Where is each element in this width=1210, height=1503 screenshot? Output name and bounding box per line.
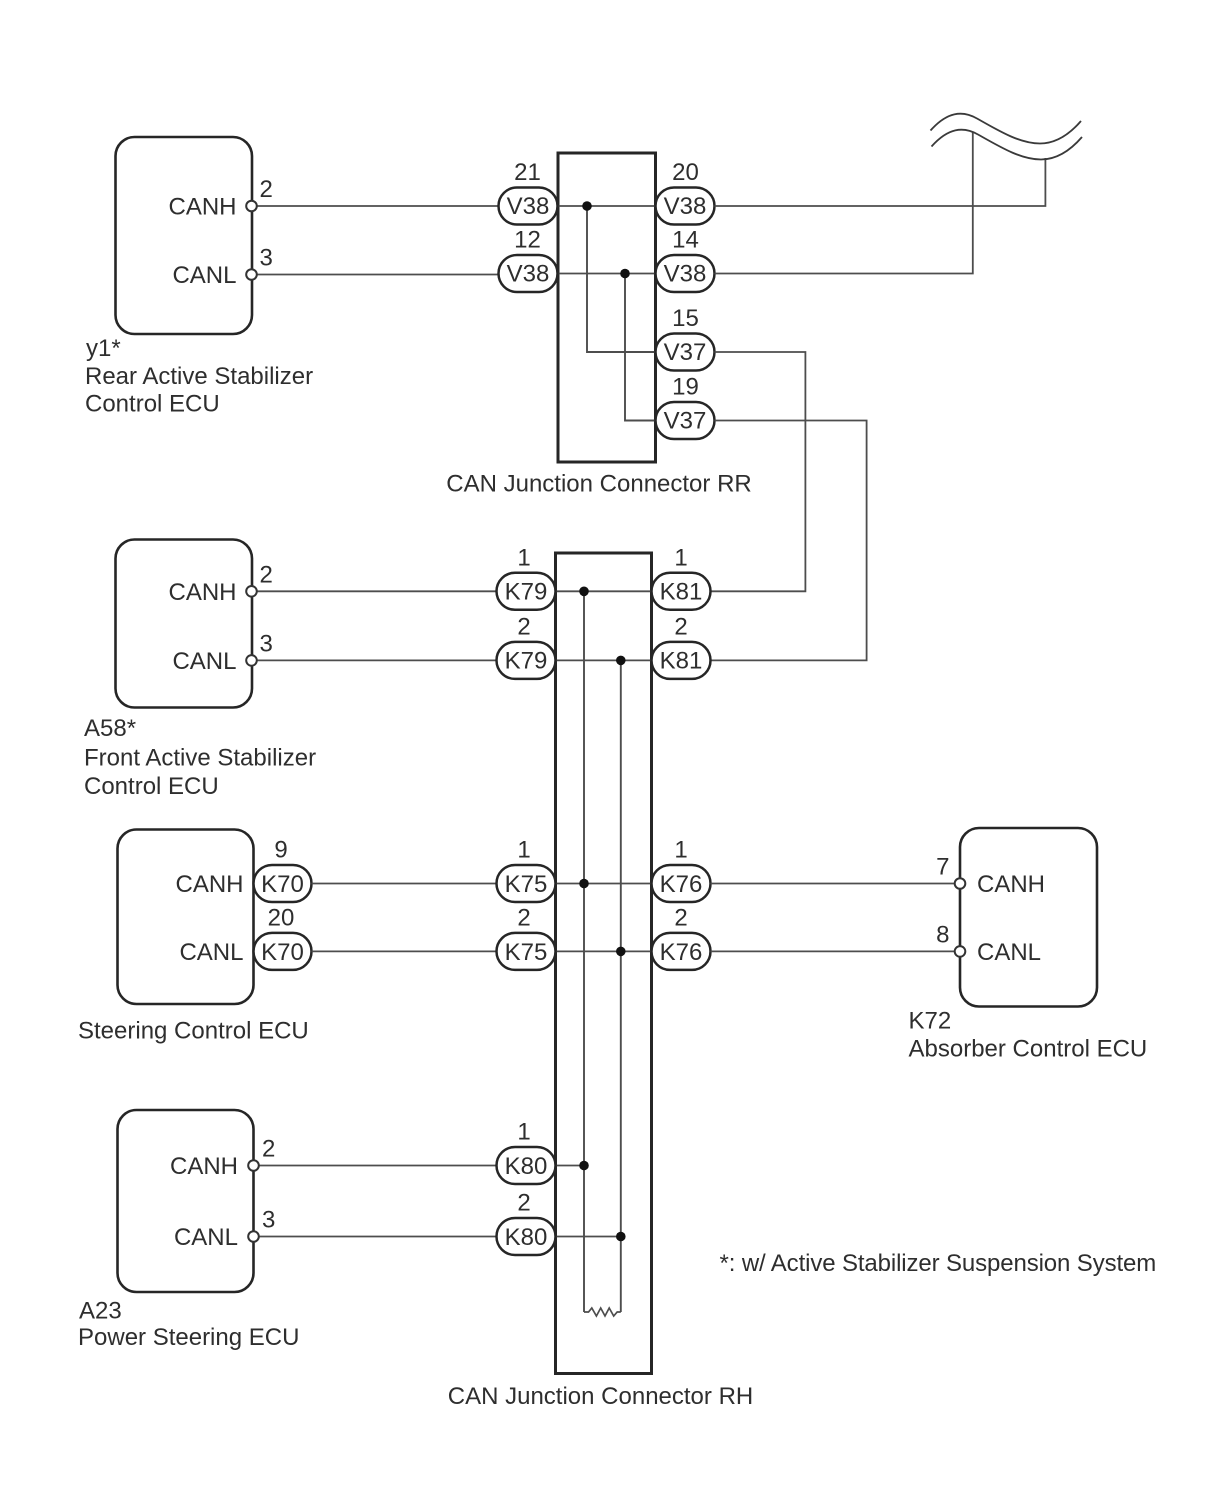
K80-1 stub wire — [556, 1165, 585, 1167]
K79/K81 through wire CANH — [556, 590, 652, 592]
ECU box K72 (Absorber Control ECU) — [960, 828, 1097, 1007]
svg-text:14: 14 — [672, 227, 699, 254]
wire y1 CANL to V38-12 — [257, 274, 499, 276]
svg-text:1: 1 — [674, 837, 687, 864]
ECU box A58 (Front Active Stabilizer Control ECU) — [116, 540, 253, 708]
svg-text:CANH: CANH — [977, 871, 1045, 898]
RR through wire pin12 to pin14 — [558, 273, 656, 275]
connector K70 pin 9 — [254, 865, 312, 902]
svg-text:2: 2 — [260, 561, 273, 588]
svg-text:CANL: CANL — [172, 262, 236, 289]
svg-text:CANH: CANH — [175, 871, 243, 898]
svg-text:K75: K75 — [505, 871, 548, 898]
pin circle A58-2 — [246, 586, 257, 597]
harness break wavy line lower — [932, 130, 1083, 160]
connector V37 pin 15 — [656, 334, 715, 371]
svg-text:2: 2 — [517, 1190, 530, 1217]
svg-text:V38: V38 — [664, 193, 707, 220]
svg-text:Front Active Stabilizer: Front Active Stabilizer — [84, 745, 316, 772]
wire y1 CANH to V38-21 — [257, 205, 499, 207]
junction dot K79-1 — [579, 587, 589, 597]
wire A23 CANL to K80-2 — [259, 1236, 497, 1238]
connector K80 pin 2 — [497, 1218, 556, 1255]
junction connector RR box — [558, 153, 656, 462]
svg-text:V37: V37 — [664, 408, 707, 435]
svg-text:K75: K75 — [505, 939, 548, 966]
ECU box Steering Control ECU — [118, 830, 254, 1005]
connector V38 pin 12 — [499, 255, 558, 292]
K75/K76 through wire CANL — [556, 950, 652, 952]
wire A58 CANL to K79-2 — [257, 659, 497, 661]
svg-text:K76: K76 — [660, 939, 703, 966]
pin circle A23-2 — [248, 1160, 259, 1171]
svg-text:K81: K81 — [660, 578, 703, 605]
connector K76 pin 2 — [652, 933, 711, 970]
svg-text:21: 21 — [514, 159, 541, 186]
svg-text:2: 2 — [262, 1136, 275, 1163]
svg-text:CAN Junction Connector RH: CAN Junction Connector RH — [448, 1383, 753, 1410]
svg-text:Steering Control ECU: Steering Control ECU — [78, 1018, 309, 1045]
junction dot RR CANH — [582, 201, 592, 211]
wire V37-19 to K81-2 — [711, 421, 867, 661]
svg-text:CAN Junction Connector RR: CAN Junction Connector RR — [446, 471, 751, 498]
pin circle y1-2 — [246, 201, 257, 212]
junction dot K80-1 — [579, 1161, 589, 1171]
svg-text:CANL: CANL — [977, 939, 1041, 966]
svg-text:8: 8 — [936, 921, 949, 948]
svg-text:K80: K80 — [505, 1153, 548, 1180]
connector V38 pin 20 — [656, 188, 715, 225]
svg-text:2: 2 — [674, 904, 687, 931]
connector K70 pin 20 — [254, 933, 312, 970]
svg-text:1: 1 — [517, 837, 530, 864]
svg-text:CANH: CANH — [168, 194, 236, 221]
svg-text:3: 3 — [260, 245, 273, 272]
svg-text:K81: K81 — [660, 647, 703, 674]
junction dot K75-1 — [579, 879, 589, 889]
RR bus CANH wire — [587, 206, 656, 352]
svg-text:2: 2 — [517, 613, 530, 640]
wire A58 CANH to K79-1 — [257, 590, 497, 592]
svg-text:CANH: CANH — [168, 579, 236, 606]
svg-text:K70: K70 — [261, 871, 304, 898]
harness break wavy line upper — [931, 114, 1082, 144]
wire V38-14 to harness break — [715, 132, 973, 274]
RH bus CANL wire — [620, 660, 622, 1312]
svg-text:V38: V38 — [507, 261, 550, 288]
svg-text:Power Steering ECU: Power Steering ECU — [78, 1324, 299, 1351]
wire K76-2 to absorber pin 8 — [711, 950, 955, 952]
svg-text:1: 1 — [517, 544, 530, 571]
RR bus CANL wire — [625, 274, 656, 421]
svg-text:V38: V38 — [664, 261, 707, 288]
RR through wire pin21 to pin20 — [558, 205, 656, 207]
svg-text:20: 20 — [672, 159, 699, 186]
svg-text:1: 1 — [674, 544, 687, 571]
svg-text:2: 2 — [260, 176, 273, 203]
connector K81 pin 1 — [652, 573, 711, 610]
svg-text:CANH: CANH — [170, 1153, 238, 1180]
connector V38 pin 14 — [656, 255, 715, 292]
K79/K81 through wire CANL — [556, 659, 652, 661]
K75/K76 through wire CANH — [556, 883, 652, 885]
svg-text:K70: K70 — [261, 939, 304, 966]
connector V37 pin 19 — [656, 402, 715, 439]
svg-text:K76: K76 — [660, 871, 703, 898]
pin circle A23-3 — [248, 1231, 259, 1242]
wire V38-20 to harness break — [715, 158, 1046, 206]
svg-text:3: 3 — [262, 1207, 275, 1234]
pin circle K72-7 — [955, 878, 966, 889]
svg-text:CANL: CANL — [179, 939, 243, 966]
svg-text:CANL: CANL — [172, 648, 236, 675]
svg-text:20: 20 — [268, 904, 295, 931]
connector K80 pin 1 — [497, 1147, 556, 1184]
pin circle K72-8 — [955, 946, 966, 957]
svg-text:V37: V37 — [664, 339, 707, 366]
pin circle y1-3 — [246, 269, 257, 280]
wire V37-15 to K81-1 — [711, 352, 806, 591]
svg-text:Control ECU: Control ECU — [85, 391, 220, 418]
connector K79 pin 1 — [497, 573, 556, 610]
svg-text:CANL: CANL — [174, 1224, 238, 1251]
svg-text:1: 1 — [517, 1119, 530, 1146]
wire A23 CANH to K80-1 — [259, 1165, 497, 1167]
svg-text:12: 12 — [514, 227, 541, 254]
junction connector RH box — [556, 553, 652, 1374]
svg-text:K79: K79 — [505, 647, 548, 674]
junction dot K75-2 — [616, 947, 626, 957]
svg-text:3: 3 — [260, 630, 273, 657]
svg-text:2: 2 — [674, 613, 687, 640]
svg-text:15: 15 — [672, 305, 699, 332]
svg-text:2: 2 — [517, 904, 530, 931]
connector K76 pin 1 — [652, 865, 711, 902]
connector K81 pin 2 — [652, 642, 711, 679]
svg-text:A23: A23 — [79, 1298, 122, 1325]
svg-text:Absorber Control ECU: Absorber Control ECU — [909, 1036, 1148, 1063]
K80-2 stub wire — [556, 1236, 621, 1238]
connector V38 pin 21 — [499, 188, 558, 225]
wire K76-1 to absorber pin 7 — [711, 883, 955, 885]
svg-text:7: 7 — [936, 854, 949, 881]
svg-text:9: 9 — [274, 837, 287, 864]
svg-text:Rear Active Stabilizer: Rear Active Stabilizer — [85, 363, 313, 390]
svg-text:K80: K80 — [505, 1224, 548, 1251]
svg-text:*: w/ Active Stabilizer Suspen: *: w/ Active Stabilizer Suspension Syste… — [720, 1250, 1157, 1277]
svg-text:A58*: A58* — [84, 715, 136, 742]
svg-text:K72: K72 — [909, 1008, 952, 1035]
svg-text:V38: V38 — [507, 193, 550, 220]
junction dot K79-2 — [616, 656, 626, 666]
svg-text:Control ECU: Control ECU — [84, 773, 219, 800]
ECU box A23 (Power Steering ECU) — [118, 1110, 254, 1292]
RH bus CANH wire — [583, 591, 585, 1312]
connector K79 pin 2 — [497, 642, 556, 679]
svg-text:y1*: y1* — [86, 335, 121, 362]
terminating resistor — [584, 1308, 621, 1316]
wire K70-9 to K75-1 — [312, 883, 498, 885]
pin circle A58-3 — [246, 655, 257, 666]
junction dot K80-2 — [616, 1232, 626, 1242]
wire K70-20 to K75-2 — [312, 950, 498, 952]
connector K75 pin 1 — [497, 865, 556, 902]
svg-text:K79: K79 — [505, 578, 548, 605]
ECU box y1 (Rear Active Stabilizer Control ECU) — [116, 137, 253, 334]
junction dot RR CANL — [620, 269, 630, 279]
svg-text:19: 19 — [672, 374, 699, 401]
connector K75 pin 2 — [497, 933, 556, 970]
